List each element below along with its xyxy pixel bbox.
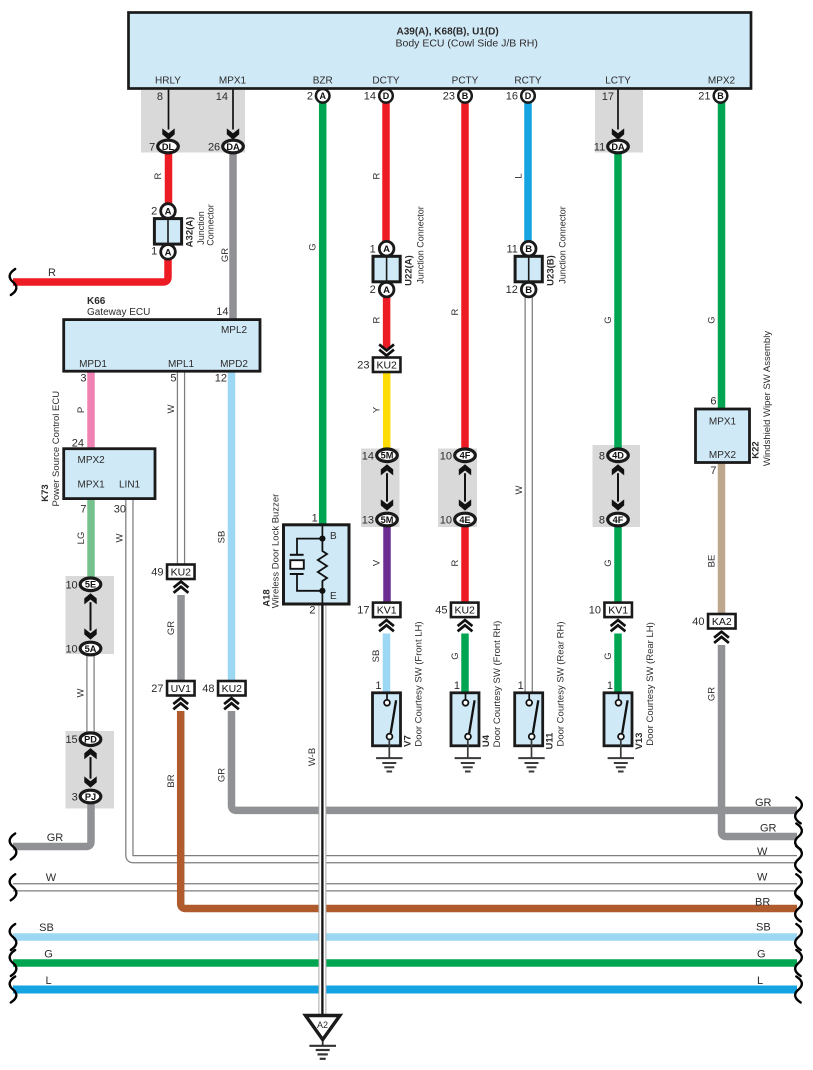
- svg-text:K22: K22: [751, 441, 762, 458]
- svg-text:7: 7: [149, 142, 155, 154]
- svg-text:4D: 4D: [612, 451, 624, 461]
- svg-text:Power Source Control ECU: Power Source Control ECU: [51, 391, 62, 507]
- svg-text:DCTY: DCTY: [372, 76, 400, 87]
- svg-text:G: G: [450, 652, 461, 659]
- svg-text:10: 10: [65, 644, 77, 656]
- svg-text:30: 30: [114, 504, 126, 516]
- svg-text:A: A: [383, 244, 390, 255]
- svg-text:MPX2: MPX2: [708, 76, 736, 87]
- svg-text:17: 17: [602, 91, 614, 103]
- svg-text:A: A: [383, 285, 390, 296]
- svg-text:Body ECU (Cowl Side J/B RH): Body ECU (Cowl Side J/B RH): [396, 38, 538, 50]
- svg-text:21: 21: [698, 91, 710, 103]
- svg-text:PD: PD: [84, 735, 97, 745]
- svg-text:Connector: Connector: [206, 204, 216, 246]
- svg-text:40: 40: [692, 616, 704, 628]
- svg-text:U4: U4: [481, 734, 492, 747]
- svg-text:MPX2: MPX2: [709, 450, 737, 461]
- svg-text:G: G: [707, 316, 718, 323]
- svg-text:W-B: W-B: [307, 748, 318, 766]
- svg-text:4F: 4F: [460, 451, 471, 461]
- svg-text:A39(A), K68(B), U1(D): A39(A), K68(B), U1(D): [397, 27, 499, 38]
- svg-text:MPX1: MPX1: [709, 417, 737, 428]
- svg-text:B: B: [330, 531, 337, 542]
- svg-text:1: 1: [518, 680, 524, 692]
- svg-text:GR: GR: [707, 687, 718, 701]
- svg-text:W: W: [46, 872, 57, 884]
- svg-text:4E: 4E: [459, 515, 470, 525]
- svg-text:8: 8: [599, 515, 605, 527]
- svg-text:14: 14: [364, 91, 376, 103]
- svg-text:MPL2: MPL2: [221, 325, 248, 336]
- svg-text:10: 10: [589, 605, 601, 617]
- svg-text:R: R: [372, 316, 383, 323]
- svg-text:Door Courtesy SW (Rear LH): Door Courtesy SW (Rear LH): [645, 622, 656, 746]
- svg-text:49: 49: [151, 566, 163, 578]
- svg-text:G: G: [44, 949, 53, 961]
- svg-text:UV1: UV1: [171, 683, 192, 695]
- svg-text:KU2: KU2: [222, 683, 243, 695]
- svg-text:G: G: [308, 243, 319, 250]
- svg-text:MPL1: MPL1: [168, 359, 195, 370]
- svg-text:U22(A): U22(A): [403, 255, 414, 286]
- svg-text:14: 14: [216, 306, 228, 318]
- svg-text:DA: DA: [226, 142, 240, 152]
- svg-text:W: W: [514, 485, 525, 494]
- svg-text:W: W: [757, 872, 768, 884]
- svg-text:10: 10: [440, 450, 452, 462]
- svg-text:Y: Y: [372, 406, 383, 413]
- svg-text:W: W: [76, 688, 87, 697]
- svg-text:Junction: Junction: [196, 211, 206, 245]
- svg-text:2: 2: [370, 284, 376, 296]
- svg-text:BR: BR: [166, 774, 177, 787]
- svg-text:MPX2: MPX2: [78, 455, 106, 466]
- svg-text:RCTY: RCTY: [514, 76, 542, 87]
- svg-text:17: 17: [357, 605, 369, 617]
- svg-text:Gateway ECU: Gateway ECU: [87, 307, 150, 318]
- svg-text:A: A: [165, 206, 172, 217]
- svg-text:V7: V7: [403, 735, 414, 747]
- svg-text:1: 1: [607, 680, 613, 692]
- svg-text:48: 48: [202, 683, 214, 695]
- svg-text:1: 1: [151, 246, 157, 258]
- svg-text:L: L: [757, 975, 763, 987]
- svg-text:W: W: [757, 846, 768, 858]
- svg-text:45: 45: [435, 605, 447, 617]
- svg-text:KV1: KV1: [608, 605, 628, 617]
- svg-text:5: 5: [170, 373, 176, 385]
- svg-text:1: 1: [375, 680, 381, 692]
- svg-text:SB: SB: [217, 531, 228, 544]
- svg-text:5E: 5E: [85, 580, 96, 590]
- svg-text:14: 14: [362, 450, 374, 462]
- svg-text:GR: GR: [47, 832, 64, 844]
- svg-text:R: R: [450, 308, 461, 315]
- svg-text:R: R: [153, 172, 164, 179]
- svg-text:A2: A2: [317, 1020, 328, 1030]
- svg-text:BZR: BZR: [313, 76, 333, 87]
- svg-text:MPD1: MPD1: [79, 359, 107, 370]
- svg-text:A: A: [319, 91, 326, 101]
- svg-text:A32(A): A32(A): [185, 217, 196, 248]
- svg-text:26: 26: [208, 142, 220, 154]
- svg-text:D: D: [525, 91, 532, 101]
- svg-text:MPX1: MPX1: [219, 76, 247, 87]
- svg-text:A: A: [165, 247, 172, 258]
- svg-text:SB: SB: [756, 922, 771, 934]
- svg-text:L: L: [514, 173, 525, 178]
- svg-text:11: 11: [506, 244, 517, 256]
- svg-text:R: R: [48, 267, 56, 279]
- svg-text:5M: 5M: [381, 515, 394, 525]
- svg-text:LG: LG: [76, 532, 87, 545]
- svg-text:Junction Connector: Junction Connector: [558, 206, 568, 284]
- svg-text:V: V: [372, 559, 383, 566]
- svg-text:PJ: PJ: [85, 792, 96, 802]
- svg-text:PCTY: PCTY: [452, 76, 479, 87]
- svg-text:1: 1: [370, 244, 376, 256]
- svg-text:23: 23: [357, 359, 369, 371]
- svg-text:B: B: [462, 91, 469, 101]
- svg-text:2: 2: [309, 605, 315, 617]
- svg-text:3: 3: [80, 373, 86, 385]
- svg-text:G: G: [757, 949, 766, 961]
- svg-text:U23(B): U23(B): [546, 255, 557, 286]
- svg-text:2: 2: [307, 91, 313, 103]
- svg-text:7: 7: [80, 504, 86, 516]
- svg-text:GR: GR: [760, 823, 777, 835]
- svg-text:KU2: KU2: [376, 360, 397, 372]
- svg-text:W: W: [166, 404, 177, 413]
- svg-text:6: 6: [710, 396, 716, 408]
- svg-text:3: 3: [72, 792, 78, 804]
- svg-text:10: 10: [440, 515, 452, 527]
- svg-text:4F: 4F: [613, 515, 624, 525]
- svg-text:KU2: KU2: [171, 567, 192, 579]
- svg-text:V13: V13: [634, 733, 645, 750]
- svg-text:1: 1: [454, 680, 460, 692]
- svg-text:U11: U11: [545, 732, 556, 750]
- svg-text:KU2: KU2: [454, 605, 475, 617]
- svg-text:K66: K66: [87, 296, 106, 307]
- svg-text:R: R: [450, 559, 461, 566]
- svg-text:12: 12: [506, 284, 518, 296]
- svg-text:G: G: [603, 652, 614, 659]
- svg-text:7: 7: [710, 465, 716, 477]
- svg-text:BE: BE: [707, 555, 718, 568]
- svg-text:GR: GR: [217, 768, 228, 782]
- svg-text:23: 23: [443, 91, 455, 103]
- svg-text:D: D: [383, 91, 390, 101]
- svg-text:15: 15: [65, 734, 77, 746]
- svg-text:Door Courtesy SW (Front RH): Door Courtesy SW (Front RH): [492, 621, 503, 748]
- svg-text:1: 1: [312, 513, 318, 525]
- svg-text:10: 10: [65, 579, 77, 591]
- svg-text:R: R: [372, 172, 383, 179]
- svg-text:DA: DA: [611, 142, 625, 152]
- svg-text:16: 16: [506, 91, 518, 103]
- svg-text:SB: SB: [371, 650, 382, 663]
- svg-text:13: 13: [362, 515, 374, 527]
- svg-text:Door Courtesy SW (Front LH): Door Courtesy SW (Front LH): [414, 621, 425, 746]
- svg-text:27: 27: [151, 683, 163, 695]
- svg-text:Wireless Door Lock Buzzer: Wireless Door Lock Buzzer: [271, 494, 282, 609]
- svg-text:B: B: [525, 285, 532, 296]
- svg-text:B: B: [525, 244, 532, 255]
- svg-text:2: 2: [151, 206, 157, 218]
- svg-text:HRLY: HRLY: [155, 76, 181, 87]
- svg-text:12: 12: [215, 373, 227, 385]
- svg-text:P: P: [76, 407, 87, 413]
- svg-text:B: B: [717, 91, 724, 101]
- svg-text:MPD2: MPD2: [220, 359, 248, 370]
- svg-text:14: 14: [216, 91, 228, 103]
- svg-text:LCTY: LCTY: [605, 76, 631, 87]
- svg-text:G: G: [603, 559, 614, 566]
- svg-text:MPX1: MPX1: [78, 480, 106, 491]
- svg-text:SB: SB: [39, 922, 54, 934]
- svg-text:Windshield Wiper SW Assembly: Windshield Wiper SW Assembly: [762, 331, 773, 466]
- svg-text:GR: GR: [755, 797, 772, 809]
- svg-text:5M: 5M: [381, 451, 394, 461]
- svg-text:Junction Connector: Junction Connector: [416, 206, 426, 284]
- svg-text:KA2: KA2: [712, 616, 732, 628]
- svg-text:Door Courtesy SW (Rear RH): Door Courtesy SW (Rear RH): [556, 621, 567, 746]
- svg-text:8: 8: [157, 91, 163, 103]
- svg-text:LIN1: LIN1: [119, 480, 141, 491]
- svg-text:L: L: [45, 975, 51, 987]
- svg-text:E: E: [330, 591, 337, 602]
- svg-text:W: W: [114, 533, 125, 542]
- svg-text:GR: GR: [166, 621, 177, 635]
- svg-text:8: 8: [599, 450, 605, 462]
- svg-text:GR: GR: [220, 248, 231, 262]
- svg-text:5A: 5A: [85, 644, 97, 654]
- svg-text:G: G: [603, 316, 614, 323]
- svg-text:11: 11: [594, 142, 605, 154]
- svg-text:K73: K73: [40, 484, 51, 501]
- svg-text:KV1: KV1: [377, 605, 397, 617]
- svg-text:BR: BR: [755, 897, 770, 909]
- svg-text:DL: DL: [162, 142, 175, 152]
